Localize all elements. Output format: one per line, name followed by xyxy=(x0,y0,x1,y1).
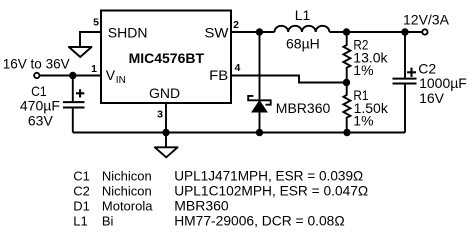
label input voltage 16V to 36V xyxy=(3,56,71,72)
output terminal xyxy=(422,29,427,34)
svg-text:C1: C1 xyxy=(73,168,90,183)
svg-text:L1: L1 xyxy=(73,214,87,229)
svg-text:GND: GND xyxy=(149,85,180,101)
BOM row D1 xyxy=(73,197,229,213)
svg-text:C1: C1 xyxy=(31,83,47,99)
svg-text:4: 4 xyxy=(235,62,241,74)
svg-text:2: 2 xyxy=(233,19,239,31)
svg-text:L1: L1 xyxy=(295,7,311,23)
svg-text:12V/3A: 12V/3A xyxy=(403,11,450,27)
pin 1 label xyxy=(91,63,97,75)
svg-text:Nichicon: Nichicon xyxy=(102,183,152,198)
svg-text:1000µF: 1000µF xyxy=(419,75,467,91)
svg-text:SHDN: SHDN xyxy=(108,24,148,40)
svg-text:MBR360: MBR360 xyxy=(276,100,331,116)
svg-text:16V: 16V xyxy=(419,90,445,106)
diode D1 MBR360 schottky xyxy=(248,32,271,133)
node FB/R1/R2 junction xyxy=(343,79,350,86)
node SW/diode junction xyxy=(256,28,263,35)
svg-text:1%: 1% xyxy=(353,112,373,128)
node GND pin rail junction xyxy=(162,129,169,136)
svg-text:C2: C2 xyxy=(73,183,90,198)
pin 5 label xyxy=(93,17,99,29)
ground symbol at SHDN xyxy=(69,47,92,57)
node R1/rail junction xyxy=(343,129,350,136)
resistor R1 xyxy=(343,83,350,133)
resistor R2 xyxy=(343,32,350,83)
BOM row C2 xyxy=(73,182,368,198)
BOM row L1 xyxy=(73,213,344,229)
input terminal xyxy=(34,73,39,78)
svg-text:Motorola: Motorola xyxy=(102,198,153,213)
svg-text:MIC4576BT: MIC4576BT xyxy=(129,50,205,66)
wire SW pin 2 output line xyxy=(231,31,275,33)
node C2 top junction xyxy=(401,28,408,35)
label 68uH xyxy=(286,35,320,51)
svg-text:SW: SW xyxy=(205,24,230,40)
pin 2 label xyxy=(233,19,239,31)
svg-text:63V: 63V xyxy=(28,113,54,129)
svg-text:68µH: 68µH xyxy=(286,35,320,51)
node L1/R2 junction xyxy=(343,28,350,35)
svg-text:C2: C2 xyxy=(418,61,436,77)
label R1 xyxy=(353,87,389,129)
svg-text:1: 1 xyxy=(91,63,97,75)
label L1 xyxy=(295,7,311,23)
inductor L1 xyxy=(275,26,330,32)
ground symbol main xyxy=(155,147,178,157)
pin 4 label xyxy=(235,62,241,74)
BOM row C1 xyxy=(73,167,363,183)
svg-text:3: 3 xyxy=(157,109,163,121)
wire input to VIN pin 1 xyxy=(40,75,102,77)
svg-text:UPL1J471MPH, ESR = 0.039Ω: UPL1J471MPH, ESR = 0.039Ω xyxy=(174,167,363,183)
svg-text:UPL1C102MPH, ESR = 0.047Ω: UPL1C102MPH, ESR = 0.047Ω xyxy=(174,182,368,198)
svg-text:V: V xyxy=(106,67,116,83)
ground rail wire xyxy=(73,132,405,134)
wire L1 to output terminal xyxy=(329,31,422,33)
svg-text:HM77-29006, DCR = 0.08Ω: HM77-29006, DCR = 0.08Ω xyxy=(174,213,345,229)
svg-text:16V to 36V: 16V to 36V xyxy=(3,56,71,72)
svg-text:FB: FB xyxy=(209,67,228,83)
svg-text:IN: IN xyxy=(116,75,126,86)
capacitor C2 xyxy=(393,32,417,133)
wire SHDN pin 5 to ground xyxy=(80,32,101,46)
svg-text:Bi: Bi xyxy=(102,214,114,229)
svg-text:5: 5 xyxy=(93,17,99,29)
wire GND pin 3 to rail xyxy=(165,103,167,147)
node input/C1 junction xyxy=(69,72,76,79)
svg-text:D1: D1 xyxy=(73,198,90,213)
label R2 xyxy=(353,37,388,78)
svg-text:1%: 1% xyxy=(353,62,373,78)
capacitor C1 xyxy=(63,76,85,133)
node diode/rail junction xyxy=(256,129,263,136)
label C2 xyxy=(418,61,467,107)
label output 12V/3A xyxy=(403,11,450,27)
IC U1 MIC4576BT xyxy=(101,11,231,104)
svg-text:470µF: 470µF xyxy=(20,98,60,114)
pin 3 label xyxy=(157,109,163,121)
label MBR360 xyxy=(276,100,331,116)
svg-text:MBR360: MBR360 xyxy=(174,197,229,213)
svg-text:Nichicon: Nichicon xyxy=(102,168,152,183)
label C1 xyxy=(20,83,60,129)
wire FB pin 4 to divider xyxy=(231,76,347,83)
